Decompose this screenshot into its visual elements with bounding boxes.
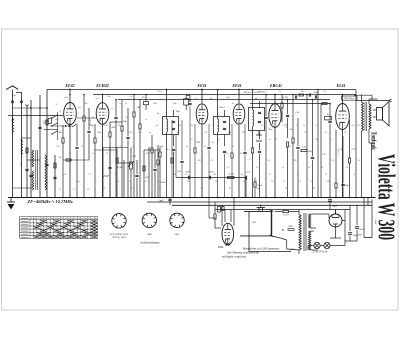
svg-text:5k: 5k <box>157 162 160 165</box>
capacitor CL4 <box>45 163 48 165</box>
EM4 base cross <box>226 243 230 247</box>
svg-text:1,2k: 1,2k <box>302 146 307 149</box>
wire EM4 leads <box>221 205 223 226</box>
wire tone v321 <box>320 104 322 198</box>
resistor EF42 cath <box>62 138 64 143</box>
wire T1 down <box>166 142 168 198</box>
svg-text:1n: 1n <box>111 108 113 110</box>
wire ECH42 cath <box>102 125 104 198</box>
svg-text:Alle Messung Arbeitsbuchse: Alle Messung Arbeitsbuchse <box>226 252 259 255</box>
svg-text:2n: 2n <box>117 181 120 183</box>
svg-text:50: 50 <box>212 125 215 127</box>
capacitor CL1 <box>25 168 28 170</box>
capacitor Cb <box>208 176 210 180</box>
svg-text:30: 30 <box>316 125 319 127</box>
svg-text:0,5: 0,5 <box>289 146 293 148</box>
wire rb v350 <box>349 205 351 231</box>
wire rect top <box>318 213 329 215</box>
tube socket B <box>142 213 156 227</box>
speaker <box>373 102 389 127</box>
wire EF42 anode <box>69 90 71 103</box>
svg-text:2k: 2k <box>59 111 61 113</box>
svg-text:0,2: 0,2 <box>162 146 166 148</box>
svg-text:0,5M: 0,5M <box>103 125 109 127</box>
svg-text:5k: 5k <box>101 181 103 183</box>
wire AF v124 <box>123 160 125 198</box>
svg-text:10p: 10p <box>12 94 17 97</box>
svg-text:0,1: 0,1 <box>324 91 327 93</box>
svg-text:0,1: 0,1 <box>78 106 81 109</box>
svg-text:0,2: 0,2 <box>129 131 133 134</box>
wire rb v357 <box>356 205 358 225</box>
tube ECH42 <box>96 103 109 125</box>
capacitor tone3 <box>328 120 331 122</box>
svg-text:0,2: 0,2 <box>268 160 272 162</box>
svg-text:40p: 40p <box>55 118 59 121</box>
wire EM4 left wrap <box>208 198 210 219</box>
resistor ECH42 g <box>94 138 96 143</box>
svg-text:EF41: EF41 <box>231 83 241 88</box>
wire AF v117 <box>116 148 118 198</box>
svg-text:50: 50 <box>185 174 188 176</box>
capacitor det c <box>258 150 261 152</box>
fuse F1 <box>283 211 289 213</box>
svg-text:25mF: 25mF <box>257 185 263 187</box>
heater bus wire <box>215 209 350 211</box>
svg-text:25p: 25p <box>95 98 99 100</box>
switch arrow ef42 <box>72 124 78 128</box>
capacitor Ca <box>187 176 189 180</box>
svg-text:1n: 1n <box>145 119 148 121</box>
capacitor tone c <box>311 156 314 158</box>
wire det h177 <box>176 177 246 179</box>
coil L2 <box>21 140 23 155</box>
junction dots sprinkle <box>62 89 365 199</box>
capacitor Cc <box>244 176 246 180</box>
svg-text:50mF: 50mF <box>359 228 365 231</box>
svg-text:25: 25 <box>249 159 252 161</box>
wire AF v176 <box>175 135 177 178</box>
tube EF41b <box>233 104 245 124</box>
svg-text:AZ41: AZ41 <box>174 233 180 236</box>
svg-text:0,2: 0,2 <box>191 125 195 127</box>
svg-text:EM4: EM4 <box>146 233 152 236</box>
resistor tone1 <box>301 149 307 151</box>
svg-text:0,1: 0,1 <box>115 174 118 176</box>
svg-text:5k: 5k <box>297 174 299 176</box>
wire rb h241 <box>345 240 357 242</box>
capacitor C32 <box>108 166 111 168</box>
component value labels <box>55 91 361 190</box>
svg-text:80p: 80p <box>226 97 230 99</box>
svg-text:300: 300 <box>58 131 63 134</box>
svg-text:250: 250 <box>56 146 60 148</box>
wire left v40 <box>39 95 41 198</box>
svg-text:50k: 50k <box>315 139 319 141</box>
wire switch v55 <box>54 155 56 198</box>
svg-text:2k: 2k <box>59 156 62 159</box>
capacitor C22 <box>296 146 299 148</box>
tube EBC41 <box>269 104 281 128</box>
resistor R13 <box>133 112 135 117</box>
svg-text:ECH42: ECH42 <box>95 83 108 88</box>
svg-text:0,1M: 0,1M <box>229 173 235 176</box>
svg-text:TA: TA <box>327 113 330 116</box>
svg-text:0,1: 0,1 <box>195 98 198 100</box>
tube EM4 <box>222 223 234 245</box>
power transformer <box>299 210 318 255</box>
svg-text:EL41: EL41 <box>335 83 345 88</box>
svg-text:EBC41: EBC41 <box>269 83 282 88</box>
wire speaker top <box>369 98 378 100</box>
capacitor CL3 <box>38 126 41 128</box>
resistor RL1 <box>26 148 28 153</box>
junction dots top <box>69 89 71 91</box>
resistor R14 <box>139 124 141 129</box>
wire rb v364 <box>363 198 365 238</box>
svg-text:0,2M: 0,2M <box>286 124 288 129</box>
capacitor EF41b byp <box>243 151 246 153</box>
svg-text:50: 50 <box>204 146 207 148</box>
svg-text:0,1/1A: 0,1/1A <box>283 214 289 217</box>
resistor EBC41 load <box>281 103 283 108</box>
potentiometer volume <box>130 162 133 169</box>
svg-text:mit Regler verglichen: mit Regler verglichen <box>222 256 247 259</box>
svg-text:80p: 80p <box>176 110 181 113</box>
resistor EF42 screen <box>83 116 85 121</box>
component small row <box>294 95 296 98</box>
svg-text:0,1: 0,1 <box>211 141 214 144</box>
wire top HT bus <box>47 89 356 91</box>
resistor right det <box>254 182 256 187</box>
wire left v47 <box>46 90 48 198</box>
capacitor C50 <box>328 199 332 201</box>
wire ot right <box>369 142 372 144</box>
resistor R22 <box>292 138 294 143</box>
svg-text:0,2: 0,2 <box>311 181 315 183</box>
svg-text:EF42: EF42 <box>64 83 74 88</box>
svg-text:5mF: 5mF <box>246 172 251 174</box>
wire speaker L <box>354 94 372 96</box>
svg-text:30: 30 <box>321 167 324 169</box>
svg-text:5k: 5k <box>159 188 162 190</box>
coil L1 <box>12 118 14 133</box>
svg-text:0,1: 0,1 <box>89 174 92 176</box>
box 47k <box>144 102 149 105</box>
wire c50 <box>329 202 331 210</box>
resistor ECH42 osc <box>109 132 111 137</box>
tube EF42 <box>64 103 77 125</box>
svg-text:100p: 100p <box>153 103 158 105</box>
svg-text:240V: 240V <box>288 225 293 228</box>
svg-text:0,1: 0,1 <box>73 103 76 105</box>
sub bus 202 <box>147 201 372 203</box>
wire AF v172 <box>171 120 173 198</box>
component value labels 2 <box>59 103 360 191</box>
svg-text:0,1: 0,1 <box>218 139 221 141</box>
wire left v27 <box>26 106 28 198</box>
link af h1 <box>144 149 160 151</box>
svg-text:2,5k: 2,5k <box>295 111 300 114</box>
svg-text:5p: 5p <box>149 132 152 134</box>
label el41 volt <box>342 96 358 100</box>
svg-text:50: 50 <box>187 181 190 183</box>
IF transformer T2 <box>214 90 230 147</box>
wire lamps <box>308 245 314 247</box>
svg-text:0,5: 0,5 <box>227 167 231 169</box>
svg-text:1n: 1n <box>92 153 95 155</box>
resistor tone2 <box>322 102 327 104</box>
svg-text:0,2: 0,2 <box>73 189 77 191</box>
svg-text:50: 50 <box>240 153 243 155</box>
box TA <box>325 117 332 120</box>
wire rb v372 <box>371 199 373 237</box>
link ef42 h <box>63 159 89 161</box>
wire EL41 anode <box>342 95 344 104</box>
svg-text:70k: 70k <box>293 160 297 162</box>
wire mid top link <box>250 103 330 105</box>
svg-text:125p: 125p <box>268 128 274 131</box>
capacitor C35 <box>180 160 183 162</box>
svg-text:0,2M: 0,2M <box>283 96 289 99</box>
wire mains top <box>244 211 271 213</box>
svg-text:25mF: 25mF <box>103 175 109 178</box>
wire tone v318 <box>317 90 319 198</box>
svg-text:ZF=468kHz ≈ 10,7MHz: ZF=468kHz ≈ 10,7MHz <box>26 199 73 204</box>
svg-text:2k: 2k <box>232 146 234 148</box>
switch box S2 <box>184 99 189 105</box>
svg-text:20k: 20k <box>111 126 116 129</box>
pilot lamp 2 <box>324 242 330 248</box>
resistor EBC41 gl <box>286 142 288 147</box>
link ef42-ech42 <box>77 117 96 119</box>
wire out v356 <box>355 90 357 198</box>
link af h2 <box>117 162 131 164</box>
svg-text:30: 30 <box>125 103 128 105</box>
capacitor C30 <box>264 116 267 118</box>
svg-text:3-12p: 3-12p <box>157 91 163 93</box>
svg-text:50p: 50p <box>256 188 260 190</box>
svg-text:6,8k: 6,8k <box>64 97 69 99</box>
svg-text:5n: 5n <box>269 139 272 141</box>
wire ECH42 anode <box>102 95 104 103</box>
svg-text:25: 25 <box>132 146 135 148</box>
wire tone v307 <box>306 95 308 198</box>
svg-text:30p: 30p <box>84 103 88 105</box>
wire rb v368 <box>367 198 369 206</box>
svg-text:25: 25 <box>145 181 148 183</box>
resistor R31 <box>116 158 118 163</box>
wire T2 down <box>217 145 219 198</box>
ground bus wire <box>8 197 376 199</box>
svg-text:220V: 220V <box>252 222 257 224</box>
svg-text:0,1: 0,1 <box>120 146 123 148</box>
pilot lamp 1 <box>314 242 320 248</box>
svg-text:1M: 1M <box>213 174 216 176</box>
resistor EL41 cath <box>335 183 337 188</box>
capacitor EF42 coup <box>87 130 90 132</box>
link left h1 <box>13 107 48 109</box>
svg-text:1n: 1n <box>119 103 122 105</box>
svg-text:25: 25 <box>129 181 132 183</box>
svg-text:50: 50 <box>103 188 106 190</box>
svg-text:5n: 5n <box>261 125 263 127</box>
capacitor elko1 <box>348 232 352 234</box>
svg-text:Violetta W 300: Violetta W 300 <box>373 154 399 240</box>
wire v243b <box>245 178 247 198</box>
svg-text:0,1: 0,1 <box>201 188 204 190</box>
svg-text:30: 30 <box>283 181 286 183</box>
resistor R34 <box>159 152 161 157</box>
svg-text:100pF: 100pF <box>344 184 351 187</box>
svg-text:10n: 10n <box>177 170 182 173</box>
svg-text:2M: 2M <box>357 125 360 127</box>
wire AF v149 <box>148 147 150 198</box>
wire AF h147 <box>103 147 128 149</box>
wire EF41b anode <box>238 90 240 104</box>
wire AVC line <box>118 99 330 101</box>
selector diagonal <box>272 236 281 238</box>
svg-text:ECH 42, EL41: ECH 42, EL41 <box>111 236 126 239</box>
capacitor EBC41 coup <box>286 114 289 116</box>
svg-text:0,1: 0,1 <box>56 104 59 106</box>
svg-text:1n: 1n <box>282 167 285 169</box>
svg-text:25: 25 <box>256 167 259 169</box>
svg-text:5k: 5k <box>156 125 159 127</box>
capacitor EF42 byp <box>75 146 78 148</box>
link ech h2 <box>110 121 122 123</box>
wire mains wrap <box>248 212 250 252</box>
svg-text:46: 46 <box>179 124 182 127</box>
svg-text:EF41,EBC41,EF42: EF41,EBC41,EF42 <box>109 233 129 236</box>
ground symbol left <box>7 198 15 210</box>
band switch <box>51 112 57 140</box>
resistor 0,1M <box>228 176 235 178</box>
svg-text:2k: 2k <box>130 96 133 98</box>
svg-text:17k: 17k <box>322 153 326 156</box>
svg-text:25: 25 <box>304 132 307 134</box>
wire left v21 <box>21 92 23 197</box>
svg-text:0,1: 0,1 <box>325 132 328 134</box>
resistor EF41a cath <box>194 148 196 153</box>
mains plug <box>257 205 266 212</box>
svg-text:2mF: 2mF <box>159 200 164 203</box>
svg-text:300: 300 <box>196 141 201 144</box>
svg-text:0,1: 0,1 <box>279 91 282 93</box>
svg-text:EM4: EM4 <box>217 245 224 249</box>
resistor R12 <box>121 126 123 131</box>
svg-text:500p: 500p <box>314 91 320 94</box>
svg-text:2mF: 2mF <box>333 205 338 208</box>
svg-text:70k: 70k <box>76 181 80 183</box>
wire rb bottom link <box>364 237 372 239</box>
svg-text:100p: 100p <box>308 150 314 153</box>
svg-text:30: 30 <box>106 153 109 155</box>
wire second top bus <box>93 94 356 96</box>
svg-text:3n: 3n <box>296 125 299 127</box>
svg-text:1,5k: 1,5k <box>62 174 67 176</box>
svg-text:0,1: 0,1 <box>269 174 272 176</box>
svg-text:26mA: 26mA <box>253 91 259 94</box>
capacitor C5 <box>53 176 56 178</box>
tube EL41 <box>336 104 350 130</box>
svg-text:50: 50 <box>346 167 349 169</box>
capacitor elko2 <box>355 226 359 228</box>
wire rect bot <box>335 232 337 238</box>
svg-text:50k: 50k <box>97 131 102 134</box>
svg-text:98V,5mA: 98V,5mA <box>244 91 253 94</box>
wire AF v103 <box>102 148 104 198</box>
capacitor C12 <box>126 136 129 138</box>
svg-text:5k: 5k <box>157 112 160 115</box>
svg-text:0,5M: 0,5M <box>117 166 123 169</box>
svg-text:50mF: 50mF <box>353 234 359 237</box>
wire EBC41 anode <box>274 95 276 104</box>
svg-text:2k: 2k <box>255 181 257 183</box>
wire rect right <box>344 210 346 246</box>
svg-text:0,1: 0,1 <box>299 181 302 183</box>
svg-text:50: 50 <box>313 188 316 190</box>
wire EF42 cathode <box>69 125 71 198</box>
IF transformer T1 <box>163 90 179 147</box>
svg-text:170: 170 <box>351 148 355 151</box>
resistor R35 <box>171 158 173 163</box>
antenna <box>6 86 18 198</box>
core L3L4 <box>35 150 37 190</box>
svg-text:1n: 1n <box>353 174 355 176</box>
link left h3 <box>27 159 40 161</box>
svg-text:0,5: 0,5 <box>332 160 336 162</box>
wire EBC41 cath <box>274 128 276 198</box>
svg-text:40p: 40p <box>107 95 111 98</box>
svg-text:2k: 2k <box>308 167 311 169</box>
tube socket A <box>112 214 126 228</box>
wire mains low <box>240 235 271 237</box>
tube AZ41 <box>329 210 342 232</box>
resistor Rg1 <box>66 159 71 161</box>
resistor 50k box <box>48 118 52 123</box>
svg-text:Sockelschaltungen: Sockelschaltungen <box>140 242 160 245</box>
svg-text:0,1: 0,1 <box>166 148 169 151</box>
capacitor C18 <box>188 102 191 104</box>
coil L5 <box>45 155 47 190</box>
link ech h1 <box>95 149 116 151</box>
ratio detector T3 <box>249 90 265 140</box>
svg-text:1M: 1M <box>132 155 136 158</box>
svg-text:0,2: 0,2 <box>352 125 356 127</box>
svg-text:80p: 80p <box>173 103 177 105</box>
svg-text:46: 46 <box>177 131 180 134</box>
svg-text:5k: 5k <box>232 103 235 105</box>
svg-text:2k: 2k <box>229 188 232 190</box>
capacitor C11 <box>114 116 117 118</box>
svg-text:80p: 80p <box>123 120 128 123</box>
svg-text:50: 50 <box>344 132 347 134</box>
svg-text:47k: 47k <box>141 96 145 99</box>
resistor EF41b cath <box>231 153 233 158</box>
svg-text:50: 50 <box>275 139 278 141</box>
svg-text:1k: 1k <box>226 153 229 155</box>
svg-text:50: 50 <box>69 153 72 155</box>
svg-text:ZF=Tr4: ZF=Tr4 <box>89 118 92 126</box>
svg-text:25: 25 <box>271 181 274 183</box>
wire EF41a anode <box>201 90 203 104</box>
wire EF41a cath <box>201 125 203 198</box>
capacitor T2 foot <box>223 150 226 152</box>
svg-text:2×6,3V 0,3A: 2×6,3V 0,3A <box>313 250 328 254</box>
link left h4 <box>13 187 32 189</box>
svg-text:50k: 50k <box>138 132 141 134</box>
